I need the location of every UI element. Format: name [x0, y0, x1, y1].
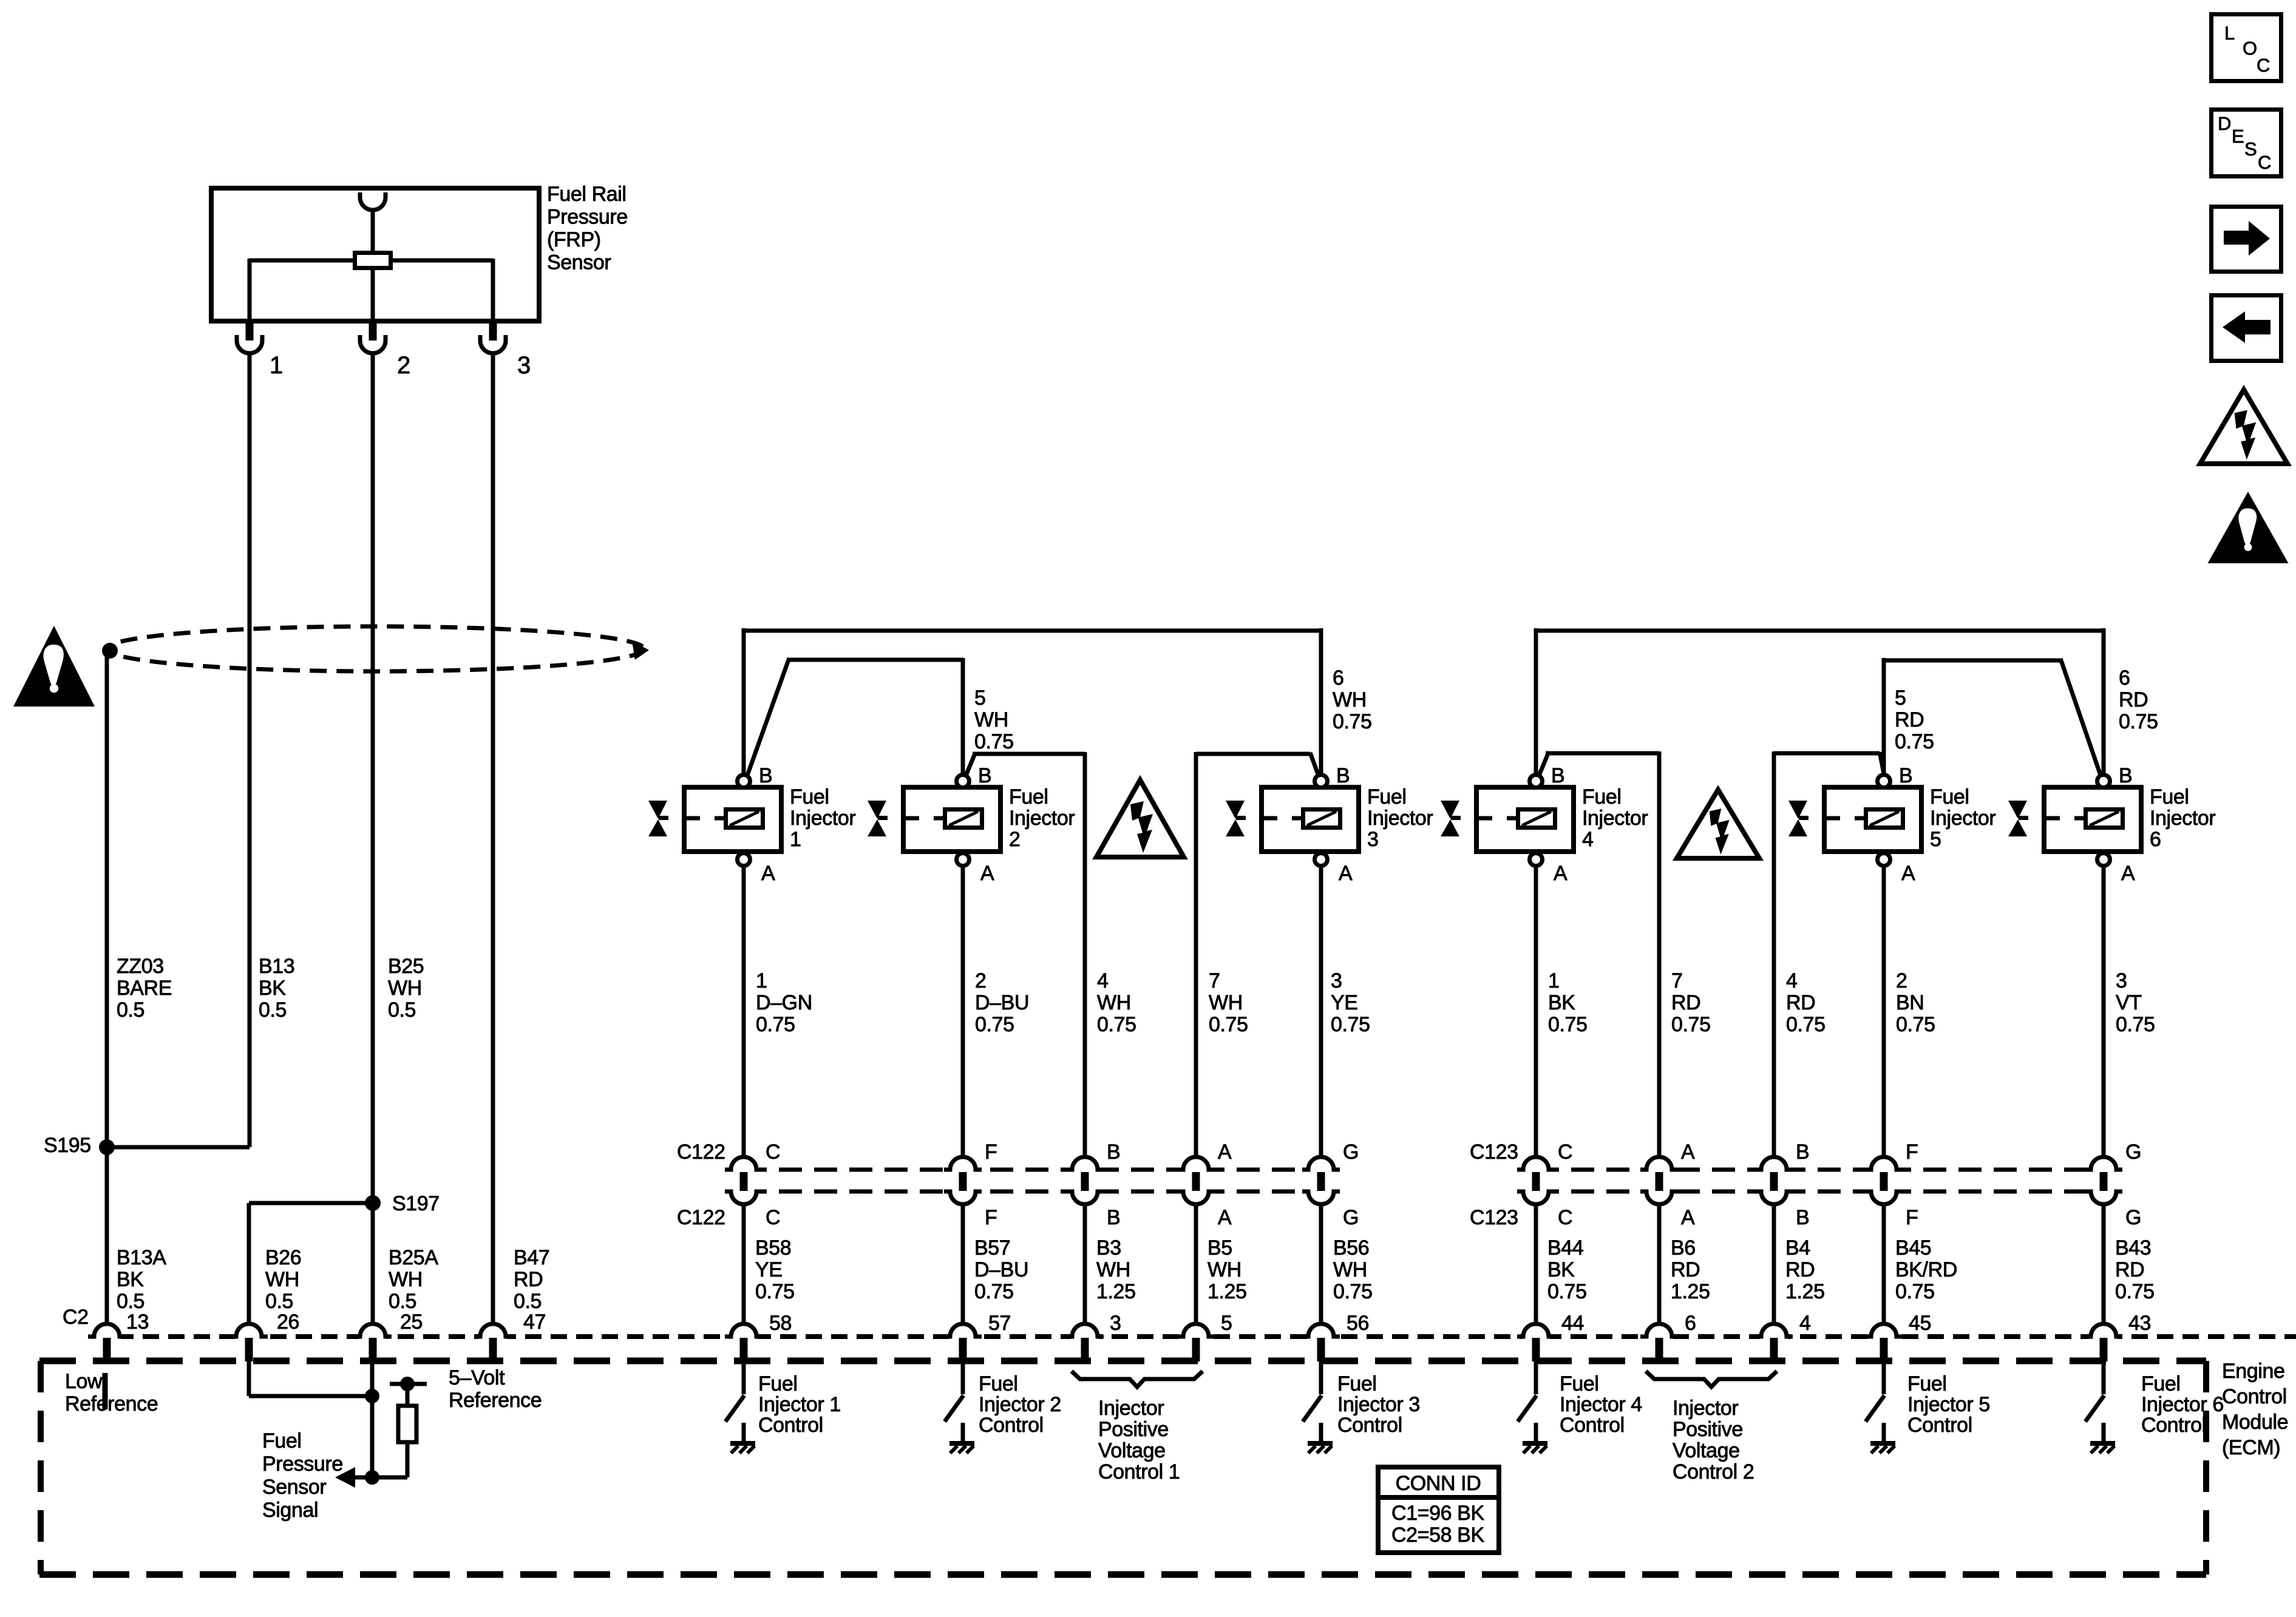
- wire 4 WH 0.75 vertical: [1083, 752, 1087, 1157]
- second bus wire 5 WH 0.75: [789, 658, 963, 662]
- svg-text:B: B: [2119, 764, 2132, 787]
- svg-text:L: L: [2224, 22, 2235, 44]
- caution triangle right column: [2208, 492, 2289, 563]
- svg-text:S197: S197: [392, 1192, 440, 1215]
- wire B13 BK 0.5 from sensor pin 1: [248, 353, 252, 1147]
- ECM connector pin 47: [479, 1333, 507, 1341]
- svg-text:B: B: [978, 764, 991, 787]
- band clamp symbol near injector 5: [1788, 801, 1807, 819]
- bus wire 7 WH 0.75 horizontal: [1196, 752, 1310, 756]
- svg-text:58: 58: [769, 1312, 792, 1335]
- fuel injector 4 box: [1476, 787, 1574, 852]
- ECM dashed border left: [38, 1361, 44, 1575]
- wire from bus to injector 3 B: [1319, 628, 1323, 775]
- brace Injector Positive Voltage Control 2: [1646, 1371, 1777, 1387]
- injector 1 terminal A: [738, 853, 750, 866]
- ECM dashed border right: [2203, 1361, 2209, 1575]
- inline connector C123-A pin symbol: [1645, 1164, 1674, 1198]
- high-voltage warning triangle right column: [2200, 390, 2288, 464]
- injector 2 terminal A: [957, 853, 970, 866]
- fuel injector 6 actuation dashes: [2042, 816, 2060, 821]
- pin 25 internal wire upper: [370, 1361, 375, 1477]
- svg-text:45: 45: [1909, 1312, 1931, 1335]
- svg-text:C: C: [766, 1206, 780, 1229]
- diagonal from bus to injector 3 B: [1310, 753, 1319, 778]
- wire below C123: [1882, 1204, 1886, 1324]
- svg-text:C: C: [766, 1141, 780, 1164]
- pull-up resistor leads: [406, 1384, 410, 1407]
- high-voltage warning triangle between injectors 4 and 5: [1677, 790, 1759, 858]
- FRP sensor box: [211, 188, 539, 321]
- wire below C123: [1534, 1204, 1538, 1324]
- wire below C123: [1772, 1204, 1776, 1324]
- fuel injector 2 coil: [945, 810, 982, 828]
- ECM connector pin 5: [1182, 1333, 1210, 1341]
- svg-text:A: A: [2121, 862, 2135, 885]
- wire below C122: [1194, 1204, 1198, 1324]
- svg-text:56: 56: [1347, 1312, 1369, 1335]
- FRP sensor element: [355, 253, 391, 268]
- ground for Fuel Injector 1 Control: [742, 1423, 746, 1441]
- svg-text:A: A: [1339, 862, 1353, 885]
- wire B26 WH 0.5: [247, 1203, 251, 1324]
- svg-text:G: G: [1343, 1141, 1359, 1164]
- fuel injector 4 coil: [1518, 810, 1555, 828]
- connector C122 dashed line upper: [744, 1168, 1321, 1172]
- forward arrow icon box: [2212, 207, 2281, 272]
- wire below C122: [1319, 1204, 1323, 1324]
- svg-text:C2=58 BK: C2=58 BK: [1391, 1524, 1484, 1547]
- twisted-pair dashed ellipse: [106, 626, 644, 671]
- injector 5 terminal A: [1878, 853, 1890, 866]
- wire down to injector 2 B: [961, 658, 965, 775]
- svg-text:B: B: [1551, 764, 1564, 787]
- svg-text:25: 25: [400, 1310, 423, 1334]
- splice S197 branch wire: [249, 1201, 373, 1205]
- fuel injector 4 actuation dashes: [1474, 816, 1492, 821]
- ground for Fuel Injector 5 Control: [1882, 1423, 1886, 1441]
- ECM connector pin 57: [949, 1333, 977, 1341]
- svg-text:A: A: [980, 862, 994, 885]
- wire 4 RD 0.75 vertical: [1772, 751, 1776, 1157]
- svg-text:G: G: [1343, 1206, 1359, 1229]
- svg-text:E: E: [2232, 126, 2244, 147]
- injector 4 terminal B: [1530, 775, 1543, 788]
- injector 4 A wire: [1534, 868, 1538, 1157]
- svg-text:D: D: [2218, 113, 2231, 134]
- svg-text:B: B: [1336, 764, 1350, 787]
- FRP sensor internal wire pin2 lower: [371, 268, 375, 321]
- svg-text:A: A: [761, 862, 775, 885]
- svg-text:3: 3: [517, 352, 531, 379]
- connector face dashed line C1/C2: [92, 1334, 2296, 1339]
- inline connector C122-G pin symbol: [1306, 1164, 1336, 1198]
- svg-text:B: B: [1107, 1141, 1120, 1164]
- ECM connector pin 25: [359, 1333, 387, 1341]
- driver switch for Fuel Injector 4 Control: [1534, 1361, 1538, 1394]
- diagonal from injector 4 B to bus 7 RD: [1538, 755, 1547, 777]
- caution triangle left: [13, 626, 95, 707]
- svg-text:13: 13: [126, 1310, 149, 1334]
- injector 3 terminal A: [1315, 853, 1328, 866]
- svg-text:F: F: [1906, 1141, 1918, 1164]
- top supply bus wire group 2: [1536, 629, 2104, 633]
- svg-text:C123: C123: [1470, 1141, 1518, 1164]
- injector 4 terminal A: [1530, 853, 1543, 866]
- CONN ID table box: [1378, 1467, 1499, 1553]
- ECM connector pin 58: [730, 1333, 758, 1341]
- Fuel Pressure Sensor Signal arrow: [352, 1476, 372, 1480]
- pin 26 internal wire: [247, 1361, 251, 1396]
- svg-text:C122: C122: [677, 1206, 725, 1229]
- bus wire 4 RD 0.75 horizontal: [1774, 751, 1880, 756]
- top supply bus wire group 1: [744, 629, 1321, 633]
- wire below C123: [2102, 1204, 2106, 1324]
- wire below C122: [742, 1204, 746, 1324]
- ECM connector pin 4: [1760, 1333, 1788, 1341]
- svg-text:CONN ID: CONN ID: [1396, 1472, 1481, 1495]
- fuel injector 6 box: [2044, 787, 2141, 852]
- svg-text:44: 44: [1561, 1312, 1584, 1335]
- inline connector C122-A pin symbol: [1181, 1164, 1211, 1198]
- svg-text:1: 1: [270, 352, 283, 379]
- wire ZZ03 BARE 0.5 (drain wire): [105, 651, 109, 1147]
- svg-text:C: C: [1558, 1141, 1572, 1164]
- svg-text:O: O: [2243, 38, 2257, 59]
- ground for Fuel Injector 2 Control: [961, 1423, 965, 1441]
- ground for Fuel Injector 3 Control: [1319, 1423, 1323, 1441]
- brace Injector Positive Voltage Control 1: [1072, 1371, 1203, 1387]
- injector 3 A wire: [1319, 868, 1323, 1157]
- diagonal from injector 2 B to bus 4 WH: [965, 755, 974, 777]
- svg-text:B: B: [1107, 1206, 1120, 1229]
- svg-text:F: F: [1906, 1206, 1918, 1229]
- splice S197: [365, 1195, 381, 1211]
- injector 3 terminal B: [1315, 775, 1328, 788]
- wire 7 RD 0.75 vertical: [1657, 751, 1662, 1157]
- inline connector C122-C pin symbol: [729, 1164, 758, 1198]
- bus wire 4 WH 0.75 horizontal: [973, 752, 1085, 756]
- ECM connector pin 44: [1522, 1333, 1550, 1341]
- injector 6 terminal B: [2097, 775, 2110, 788]
- twisted-pair ellipse arrowhead: [632, 641, 649, 660]
- diagonal to injector 6 B: [2060, 659, 2102, 779]
- ground for Fuel Injector 6 Control: [2102, 1423, 2106, 1441]
- junction dot signal node: [365, 1470, 379, 1485]
- ECM dashed border bottom: [39, 1571, 2206, 1578]
- svg-text:B: B: [1796, 1141, 1809, 1164]
- connector C123 dashed line lower: [1536, 1190, 2104, 1194]
- wire down to injector 5 B: [1882, 658, 1886, 775]
- svg-text:6: 6: [1685, 1312, 1696, 1335]
- ECM connector pin 26: [235, 1333, 263, 1341]
- wire B13A BK 0.5: [105, 1147, 109, 1324]
- injector 1 A wire: [742, 868, 746, 1157]
- back arrow icon box: [2212, 296, 2281, 361]
- band clamp symbol near injector 6: [2008, 801, 2027, 819]
- diagonal from bus to injector 5 B: [1880, 752, 1884, 773]
- FRP sensor pin 2 connector: [369, 321, 377, 341]
- driver switch for Fuel Injector 5 Control: [1882, 1361, 1886, 1394]
- svg-text:26: 26: [277, 1310, 299, 1334]
- wire B25 WH 0.5 from sensor pin 2: [371, 353, 375, 1324]
- inline connector C122-B pin symbol: [1070, 1164, 1099, 1198]
- fuel injector 5 actuation dashes: [1822, 816, 1840, 821]
- inline connector C123-G pin symbol: [2089, 1164, 2118, 1198]
- svg-text:C: C: [2257, 55, 2270, 76]
- connector C122 dashed line lower: [744, 1190, 1321, 1194]
- ECM connector pin 56: [1307, 1333, 1335, 1341]
- ground for Fuel Injector 4 Control: [1534, 1423, 1538, 1441]
- svg-text:B: B: [1796, 1206, 1809, 1229]
- second bus wire 5 RD 0.75: [1884, 659, 2060, 663]
- fuel injector 1 box: [684, 787, 781, 852]
- svg-text:S: S: [2244, 138, 2257, 160]
- fuel injector 6 coil: [2086, 810, 2123, 828]
- svg-text:57: 57: [988, 1312, 1011, 1335]
- junction dot pins 25/26: [365, 1389, 379, 1403]
- svg-text:2: 2: [397, 352, 410, 379]
- inline connector C123-C pin symbol: [1521, 1164, 1550, 1198]
- wire from bus to injector 4 B: [1534, 628, 1538, 775]
- driver switch for Fuel Injector 1 Control: [742, 1361, 746, 1394]
- injector 2 A wire: [961, 868, 965, 1157]
- wire 7 WH 0.75 vertical: [1194, 752, 1198, 1157]
- LOC icon box: [2212, 15, 2281, 81]
- diagonal to injector 1 B: [746, 658, 789, 779]
- fuel injector 3 coil: [1303, 810, 1340, 828]
- junction dot at drain wire top: [102, 643, 118, 659]
- FRP sensor internal top connector arc: [360, 192, 385, 210]
- FRP sensor pin 1 connector: [246, 321, 254, 341]
- injector 6 A wire: [2102, 868, 2106, 1157]
- connector C123 dashed line upper: [1536, 1168, 2104, 1172]
- junction dot 5-volt rail: [400, 1377, 415, 1391]
- FRP sensor internal wire pin1: [248, 259, 252, 321]
- svg-text:3: 3: [1110, 1312, 1121, 1335]
- svg-text:A: A: [1218, 1206, 1232, 1229]
- fuel injector 3 box: [1262, 787, 1359, 852]
- svg-text:4: 4: [1799, 1312, 1811, 1335]
- injector 5 terminal B: [1878, 775, 1890, 788]
- driver switch for Fuel Injector 2 Control: [961, 1361, 965, 1394]
- svg-text:A: A: [1681, 1206, 1695, 1229]
- ECM dashed border top: [39, 1358, 2206, 1364]
- wire below C122: [961, 1204, 965, 1324]
- svg-text:C2: C2: [63, 1306, 89, 1329]
- ECM connector pin 3: [1071, 1333, 1099, 1341]
- splice S195 branch wire: [107, 1145, 250, 1150]
- band clamp symbol near injector 4: [1441, 801, 1459, 819]
- high-voltage warning triangle between injectors 2 and 3: [1096, 780, 1184, 857]
- svg-text:C122: C122: [677, 1141, 725, 1164]
- injector 6 terminal A: [2097, 853, 2110, 866]
- svg-text:47: 47: [523, 1310, 546, 1334]
- band clamp symbol near injector 3: [1226, 801, 1245, 819]
- back arrow: [2244, 320, 2271, 334]
- 5-volt internal rail: [390, 1382, 427, 1386]
- driver switch for Fuel Injector 3 Control: [1319, 1361, 1323, 1394]
- CONN ID table divider: [1378, 1495, 1499, 1500]
- svg-text:C: C: [2258, 152, 2271, 173]
- svg-text:F: F: [985, 1206, 997, 1229]
- FRP sensor internal wire pin2 upper: [371, 210, 375, 254]
- fuel injector 1 coil: [726, 810, 763, 828]
- svg-text:S195: S195: [44, 1134, 91, 1157]
- fuel injector 1 actuation dashes: [682, 816, 700, 821]
- pull-up resistor: [398, 1406, 416, 1442]
- FRP sensor internal wire pin3: [491, 259, 495, 321]
- svg-text:B: B: [759, 764, 772, 787]
- svg-text:A: A: [1218, 1141, 1232, 1164]
- band clamp symbol near injector 1: [648, 801, 667, 819]
- fuel injector 3 actuation dashes: [1259, 816, 1277, 821]
- ECM connector pin 13: [93, 1333, 121, 1341]
- ECM connector pin 45: [1870, 1333, 1898, 1341]
- DESC icon box: [2212, 110, 2281, 177]
- bus wire 7 RD 0.75 horizontal: [1546, 751, 1659, 756]
- splice S195: [99, 1139, 115, 1155]
- svg-text:G: G: [2125, 1141, 2141, 1164]
- band clamp symbol near injector 2: [868, 801, 886, 819]
- forward arrow: [2224, 231, 2250, 245]
- svg-text:C123: C123: [1470, 1206, 1518, 1229]
- driver switch for Fuel Injector 6 Control: [2102, 1361, 2106, 1394]
- svg-text:C: C: [1558, 1206, 1572, 1229]
- svg-text:G: G: [2125, 1206, 2141, 1229]
- svg-text:C1=96 BK: C1=96 BK: [1391, 1502, 1484, 1525]
- wire below C122: [1083, 1204, 1087, 1324]
- FRP sensor pin 3 connector: [489, 321, 497, 341]
- inline connector C123-B pin symbol: [1759, 1164, 1788, 1198]
- svg-text:A: A: [1554, 862, 1567, 885]
- wire from bus to injector 6 B: [2102, 628, 2106, 775]
- fuel injector 2 actuation dashes: [901, 816, 919, 821]
- svg-text:B56WH0.75: B56WH0.75: [1333, 1236, 1373, 1303]
- ECM connector pin 43: [2090, 1333, 2118, 1341]
- inline connector C122-F pin symbol: [948, 1164, 977, 1198]
- svg-text:5: 5: [1221, 1312, 1232, 1335]
- ECM connector pin 6: [1645, 1333, 1673, 1341]
- svg-text:43: 43: [2128, 1312, 2151, 1335]
- Low Reference internal stub: [103, 1373, 108, 1409]
- wire B47 RD 0.5 from sensor pin 3: [491, 353, 495, 1324]
- inline connector C123-F pin symbol: [1869, 1164, 1898, 1198]
- svg-text:A: A: [1681, 1141, 1695, 1164]
- injector 2 terminal B: [957, 775, 970, 788]
- injector 5 A wire: [1882, 868, 1886, 1157]
- wire below C123: [1657, 1204, 1662, 1324]
- FRP sensor internal horizontal wire: [250, 259, 353, 263]
- svg-text:B: B: [1899, 764, 1912, 787]
- fuel injector 2 box: [903, 787, 1000, 852]
- injector 1 terminal B: [738, 775, 750, 788]
- wire from bus to injector 1 B: [742, 628, 746, 775]
- fuel injector 5 coil: [1866, 810, 1903, 828]
- svg-text:F: F: [985, 1141, 997, 1164]
- svg-text:A: A: [1901, 862, 1915, 885]
- fuel injector 5 box: [1824, 787, 1921, 852]
